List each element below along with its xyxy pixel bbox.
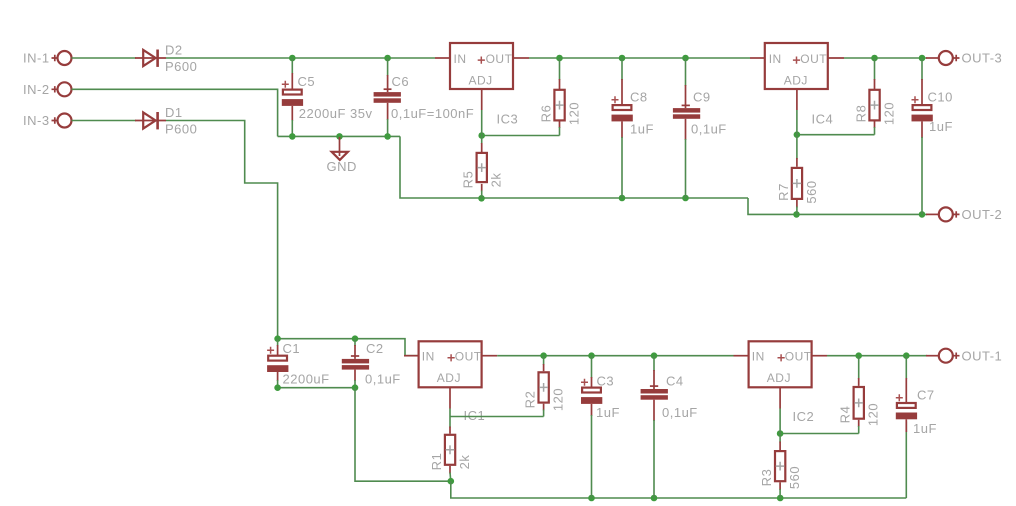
wire R4 bottom to IC2 ADJ node bbox=[780, 433, 859, 435]
svg-text:120: 120 bbox=[551, 388, 566, 411]
capacitor C7 bbox=[896, 356, 937, 436]
node mid rail dot at GND bbox=[336, 133, 343, 140]
svg-text:C4: C4 bbox=[666, 373, 684, 388]
svg-text:120: 120 bbox=[882, 102, 897, 125]
svg-text:C7: C7 bbox=[917, 387, 935, 402]
wire IN-1 to D2 bbox=[72, 57, 137, 59]
wire IC4 OUT rail to OUT-3 bbox=[844, 57, 927, 59]
wire mid rail down to lower rail bbox=[400, 136, 748, 198]
svg-text:0,1uF: 0,1uF bbox=[365, 371, 401, 386]
svg-text:C8: C8 bbox=[630, 90, 648, 105]
node IC4 ADJ dot bbox=[794, 131, 801, 138]
svg-text:R2: R2 bbox=[523, 391, 538, 409]
svg-text:R8: R8 bbox=[854, 105, 869, 123]
wire R6 bottom to IC3 ADJ node bbox=[482, 135, 560, 137]
svg-text:ADJ: ADJ bbox=[469, 73, 493, 87]
op-amp regulator IC1 bbox=[404, 341, 497, 408]
node rail dot at C1 bbox=[274, 335, 281, 342]
svg-text:R7: R7 bbox=[776, 183, 791, 201]
wire mid rail bbox=[278, 135, 400, 137]
node IC2 ADJ dot bbox=[777, 430, 784, 437]
svg-text:560: 560 bbox=[804, 180, 819, 203]
node OUT-2 rail dot at C10 bbox=[919, 211, 926, 218]
node top rail dot at C5 bbox=[289, 55, 296, 62]
svg-text:1uF: 1uF bbox=[596, 405, 620, 420]
diode D2 bbox=[135, 42, 197, 73]
wire IC3 ADJ to R5 bbox=[481, 110, 483, 144]
resistor R7 bbox=[776, 158, 819, 214]
svg-text:OUT-1: OUT-1 bbox=[962, 348, 1003, 363]
capacitor C9 bbox=[673, 58, 727, 198]
svg-text:IC2: IC2 bbox=[793, 409, 815, 424]
svg-text:C6: C6 bbox=[392, 74, 410, 89]
node lower rail dot at C8 bbox=[619, 195, 626, 202]
capacitor C5 bbox=[282, 58, 373, 136]
svg-text:C3: C3 bbox=[597, 373, 615, 388]
node OUT rail dot at C3 bbox=[588, 352, 595, 359]
svg-text:IN: IN bbox=[752, 350, 765, 364]
svg-text:2200uF 35v: 2200uF 35v bbox=[299, 106, 373, 121]
node lower rail dot at C9 bbox=[682, 195, 689, 202]
capacitor C10 bbox=[912, 58, 953, 214]
connector IN-1 bbox=[23, 51, 72, 66]
wire D2 to IC3 IN bbox=[166, 57, 435, 59]
svg-text:P600: P600 bbox=[165, 121, 197, 136]
wire ground rail up to C7 bbox=[905, 422, 907, 499]
svg-text:IN: IN bbox=[769, 52, 782, 66]
svg-text:D2: D2 bbox=[165, 42, 183, 57]
svg-text:2k: 2k bbox=[457, 455, 472, 470]
svg-text:OUT: OUT bbox=[800, 52, 827, 66]
node rail dot at C2 bbox=[352, 335, 359, 342]
node mid rail dot at C5 bbox=[289, 133, 296, 140]
svg-text:1uF: 1uF bbox=[913, 421, 937, 436]
svg-text:120: 120 bbox=[866, 403, 881, 426]
svg-text:P600: P600 bbox=[165, 59, 197, 74]
svg-text:IC3: IC3 bbox=[497, 112, 519, 127]
svg-text:IN: IN bbox=[422, 350, 435, 364]
svg-text:OUT: OUT bbox=[785, 350, 812, 364]
node mid rail dot at C6 bbox=[384, 133, 391, 140]
svg-text:C9: C9 bbox=[693, 90, 711, 105]
svg-text:IN: IN bbox=[454, 52, 467, 66]
node ground rail dot at C3 bbox=[588, 495, 595, 502]
svg-text:R4: R4 bbox=[838, 406, 853, 424]
node dot R1 bottom bbox=[448, 478, 455, 485]
svg-text:R6: R6 bbox=[539, 105, 554, 123]
wire bottom input rail to IC1 IN bbox=[278, 339, 418, 356]
svg-text:GND: GND bbox=[327, 159, 357, 174]
wire IC3 OUT rail to IC4 IN bbox=[529, 57, 750, 59]
op-amp regulator IC3 bbox=[435, 43, 529, 110]
connector OUT-2 bbox=[926, 207, 1002, 222]
node OUT rail dot at C8 bbox=[619, 55, 626, 62]
wire C1-C2 bottom rail bbox=[278, 387, 355, 389]
svg-text:2k: 2k bbox=[489, 173, 504, 188]
svg-text:C5: C5 bbox=[298, 74, 316, 89]
svg-text:IN-3: IN-3 bbox=[23, 113, 50, 128]
resistor R6 bbox=[539, 58, 582, 136]
capacitor C3 bbox=[581, 356, 620, 498]
wire IC4 ADJ to R7 bbox=[796, 110, 798, 159]
node ground rail dot at C4 bbox=[651, 495, 658, 502]
svg-text:1uF: 1uF bbox=[929, 119, 953, 134]
svg-text:120: 120 bbox=[567, 102, 582, 125]
wire R1 bottom down to ground rail bbox=[451, 481, 907, 498]
ground GND bbox=[327, 137, 357, 174]
connector IN-2 bbox=[23, 82, 72, 97]
svg-text:R5: R5 bbox=[461, 171, 476, 189]
wire IC2 ADJ to R3 bbox=[779, 409, 781, 443]
resistor R8 bbox=[854, 58, 897, 135]
node OUT rail dot at R8 bbox=[871, 55, 878, 62]
wire IC2 OUT rail to OUT-1 bbox=[827, 355, 927, 357]
node IC3 ADJ dot bbox=[478, 132, 485, 139]
capacitor C2 bbox=[342, 339, 401, 388]
connector IN-3 bbox=[23, 113, 72, 128]
node OUT rail dot at C10 bbox=[919, 55, 926, 62]
svg-text:0,1uF: 0,1uF bbox=[662, 405, 698, 420]
wire IC1 ADJ to R1 bbox=[449, 409, 451, 428]
connector OUT-3 bbox=[926, 51, 1002, 66]
wire IN-2 to mid rail bbox=[72, 89, 278, 136]
op-amp regulator IC2 bbox=[734, 341, 828, 408]
svg-text:IN-2: IN-2 bbox=[23, 82, 50, 97]
svg-text:IC4: IC4 bbox=[812, 112, 834, 127]
svg-text:OUT-2: OUT-2 bbox=[962, 207, 1003, 222]
svg-text:2200uF: 2200uF bbox=[283, 371, 330, 386]
svg-text:1uF: 1uF bbox=[630, 122, 654, 137]
resistor R5 bbox=[461, 143, 504, 198]
diode D1 bbox=[135, 105, 197, 136]
svg-text:OUT-3: OUT-3 bbox=[962, 51, 1003, 66]
connector OUT-1 bbox=[926, 348, 1002, 363]
svg-text:560: 560 bbox=[787, 466, 802, 489]
wire IC1 OUT rail to IC2 IN bbox=[497, 355, 733, 357]
node lower rail dot at R5 bbox=[478, 195, 485, 202]
svg-text:ADJ: ADJ bbox=[767, 371, 791, 385]
svg-text:IC1: IC1 bbox=[464, 408, 486, 423]
node OUT rail dot at C4 bbox=[651, 352, 658, 359]
capacitor C1 bbox=[267, 339, 329, 388]
node bottom rail dot at C2 bbox=[352, 384, 359, 391]
node top rail dot at C6 bbox=[384, 55, 391, 62]
svg-text:ADJ: ADJ bbox=[437, 371, 461, 385]
svg-text:C2: C2 bbox=[366, 341, 384, 356]
node bottom rail dot at C1 bbox=[274, 384, 281, 391]
op-amp regulator IC4 bbox=[750, 43, 844, 110]
capacitor C4 bbox=[641, 356, 698, 498]
svg-text:IN-1: IN-1 bbox=[23, 51, 50, 66]
resistor R3 bbox=[759, 442, 802, 499]
resistor R4 bbox=[838, 356, 881, 434]
svg-text:OUT: OUT bbox=[455, 350, 482, 364]
svg-text:C1: C1 bbox=[283, 341, 301, 356]
wire R2 bottom to IC1 ADJ bbox=[450, 416, 544, 418]
wire lower rail step to OUT-2 bbox=[748, 198, 927, 214]
resistor R1 bbox=[429, 427, 472, 482]
node OUT rail dot at C9 bbox=[682, 55, 689, 62]
svg-text:OUT: OUT bbox=[486, 52, 513, 66]
wire R8 bottom to IC4 ADJ node bbox=[797, 134, 875, 136]
node ground rail dot at R3 bbox=[777, 495, 784, 502]
svg-text:R1: R1 bbox=[429, 453, 444, 471]
wire IN-3 to D1 bbox=[72, 120, 137, 122]
node OUT rail dot at R4 bbox=[855, 352, 862, 359]
svg-text:0,1uF=100nF: 0,1uF=100nF bbox=[391, 106, 474, 121]
svg-text:D1: D1 bbox=[165, 105, 183, 120]
wire C2 down and right to R1 bottom bbox=[355, 388, 451, 482]
node OUT rail dot at C7 bbox=[903, 352, 910, 359]
svg-text:0,1uF: 0,1uF bbox=[691, 122, 727, 137]
svg-text:R3: R3 bbox=[759, 469, 774, 487]
svg-text:ADJ: ADJ bbox=[784, 73, 808, 87]
wire D1 staircase down to bottom section rail bbox=[166, 121, 278, 339]
svg-text:C10: C10 bbox=[928, 90, 953, 105]
node OUT-2 rail dot at R7 bbox=[793, 211, 800, 218]
node OUT rail dot at R6 bbox=[556, 55, 563, 62]
capacitor C6 bbox=[374, 58, 475, 136]
capacitor C8 bbox=[612, 58, 654, 198]
resistor R2 bbox=[523, 356, 566, 417]
node OUT rail dot at R2 bbox=[540, 352, 547, 359]
